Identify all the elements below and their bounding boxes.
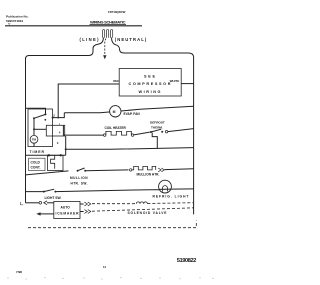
mullion heater connector chevrons — [158, 168, 164, 172]
cold control label box — [29, 158, 45, 170]
wire mullion heater to neutral bus — [165, 168, 194, 171]
svg-text:ICEMAKER: ICEMAKER — [56, 211, 80, 215]
wire lamp to neutral bus — [171, 188, 193, 190]
header rule — [5, 25, 142, 27]
cold control stepped element — [51, 155, 55, 168]
cold control box — [48, 155, 64, 170]
plug prong right — [111, 30, 113, 38]
cold control node right — [60, 154, 62, 156]
icemaker output stub top — [80, 203, 84, 205]
svg-text:LIGHT SW.: LIGHT SW. — [45, 196, 62, 200]
svg-text:THERM.: THERM. — [151, 125, 163, 129]
svg-text:FRT18QRCW: FRT18QRCW — [108, 10, 126, 14]
svg-text:4: 4 — [59, 130, 61, 134]
ground dashed wire — [105, 39, 106, 56]
cold control node left — [48, 154, 50, 156]
svg-text:AUTO: AUTO — [61, 205, 71, 209]
timer switch blade — [34, 114, 46, 118]
wire from left bus to timer — [26, 108, 46, 114]
label MULLION HTR. SW. — [70, 176, 88, 185]
timer switch pivot node — [45, 113, 47, 115]
defrost heater terminal circle left — [104, 134, 106, 136]
junction node red/terminal2 — [57, 117, 59, 119]
svg-text:COLD: COLD — [31, 161, 41, 165]
dashed bottom return wire — [28, 221, 196, 228]
icemaker receptacle chevron — [44, 201, 47, 205]
svg-text:COIL HEATER: COIL HEATER — [105, 126, 127, 130]
svg-text:SOLENOID VALVE: SOLENOID VALVE — [128, 211, 168, 215]
svg-text:WHITE: WHITE — [170, 79, 180, 83]
wire neutral-side from plug to right bus — [112, 38, 194, 58]
svg-text:MULLION: MULLION — [70, 176, 88, 180]
svg-text:RED: RED — [113, 79, 120, 83]
wire light line — [26, 191, 44, 193]
ground arrowhead — [103, 55, 106, 59]
wire white compressor to neutral bus — [181, 83, 193, 85]
dashed wire solenoid to neutral bus — [147, 202, 193, 205]
publication number block — [6, 15, 29, 23]
wire heater to defrost thermostat — [134, 132, 150, 135]
timer motor TM — [30, 135, 38, 143]
icemaker connector chevrons bottom — [84, 210, 90, 214]
svg-text:REFRIG. LIGHT: REFRIG. LIGHT — [153, 195, 189, 199]
light switch node left — [43, 191, 45, 193]
defrost coil heater element — [106, 131, 131, 135]
wire timer internal vertical — [33, 118, 35, 135]
defrost thermostat sensing bracket — [152, 133, 157, 149]
wire red compressor feed — [58, 84, 119, 118]
icemaker output stub bottom — [80, 211, 84, 213]
svg-text:13: 13 — [103, 265, 106, 269]
terminal 2 node — [52, 117, 54, 119]
wire terminal 4 to defrost heater — [63, 125, 103, 135]
wire terminal 2 to fan line — [53, 113, 65, 118]
wire timer internal horizontal — [34, 128, 46, 130]
svg-text:WIRING SCHEMATIC: WIRING SCHEMATIC — [90, 19, 126, 24]
timer box — [28, 109, 53, 147]
wire icemaker feed — [26, 202, 39, 204]
right bus wire — [193, 58, 195, 215]
evap fan motor — [110, 106, 121, 117]
svg-text:(NEUTRAL): (NEUTRAL) — [115, 37, 147, 42]
wire light switch to lamp — [55, 190, 159, 192]
svg-text:TIMER: TIMER — [30, 150, 45, 154]
svg-text:HTR. SW.: HTR. SW. — [71, 182, 88, 186]
svg-text:COMPRESSOR: COMPRESSOR — [129, 82, 171, 86]
publication pointer mark — [8, 23, 10, 25]
svg-text:MULLION HTR.: MULLION HTR. — [137, 173, 160, 177]
wire thermostat to neutral bus — [168, 129, 194, 132]
svg-text:1: 1 — [59, 123, 61, 127]
defrost thermostat terminal circle — [165, 131, 167, 133]
label DEFROST THERM. — [150, 121, 165, 130]
light switch blade — [44, 189, 54, 191]
svg-text:5190822: 5190822 — [177, 258, 197, 264]
svg-text:5995371891: 5995371891 — [6, 19, 23, 23]
svg-text:SEE: SEE — [144, 74, 155, 78]
defrost heater terminal circle right — [131, 134, 133, 136]
light switch node right — [54, 191, 56, 193]
dashed wire to solenoid — [92, 203, 136, 205]
svg-text:WIRING: WIRING — [139, 90, 161, 94]
icemaker connector chevrons top — [84, 202, 90, 206]
mullion switch node right — [84, 170, 86, 172]
svg-text:(LINE): (LINE) — [80, 37, 100, 42]
wire mullion switch to heater — [85, 169, 128, 172]
wire line-side from plug to left bus — [26, 38, 104, 60]
defrost thermostat node left — [150, 131, 152, 133]
left bus wire — [25, 59, 27, 203]
compressor box U1 — [119, 69, 181, 97]
junction node terminal 3 — [65, 148, 67, 150]
node left upper — [33, 117, 35, 119]
mullion switch node left — [77, 170, 79, 172]
wire TM to box bottom — [33, 143, 35, 146]
defrost thermostat blade — [151, 129, 161, 132]
lamp filament — [163, 186, 168, 192]
svg-text:2: 2 — [53, 113, 55, 117]
auto icemaker box — [54, 202, 80, 219]
mullion heater element — [132, 166, 156, 170]
icemaker plug terminal circle — [39, 202, 42, 205]
lamp chord wire — [159, 188, 172, 190]
wire chevron to icemaker box — [47, 202, 54, 204]
title underline — [90, 24, 127, 26]
timer cam switch box — [46, 125, 64, 136]
refrigerator light lamp — [159, 180, 172, 193]
wire terminal 3 to neutral bus — [66, 148, 194, 150]
plug prong middle — [107, 30, 109, 38]
wire icemaker water-fill arrow — [39, 213, 54, 215]
svg-text:EVAP. FAN: EVAP. FAN — [124, 112, 141, 116]
svg-text:M: M — [113, 110, 116, 114]
solenoid coil L1 — [136, 202, 147, 204]
scan speckle row — [7, 277, 213, 280]
wire terminal 3 vertical — [65, 136, 67, 155]
node left lower — [33, 128, 35, 130]
svg-text:TM: TM — [32, 138, 37, 142]
svg-text:7/98: 7/98 — [16, 270, 22, 274]
wire evap fan line — [64, 106, 193, 113]
margin corner mark — [21, 202, 24, 205]
mullion heater terminal circle — [130, 169, 132, 171]
wire mullion heater line — [26, 171, 69, 175]
mullion switch blade — [78, 168, 85, 171]
timer contact node — [44, 119, 46, 121]
defrost thermostat node right — [161, 131, 163, 133]
plug prong left — [103, 30, 105, 38]
svg-text:DEFROST: DEFROST — [150, 121, 165, 125]
icemaker arrowhead — [36, 212, 40, 215]
dashed wire icemaker return — [92, 208, 194, 211]
wire cold control line — [26, 154, 66, 156]
svg-text:CONT.: CONT. — [31, 166, 41, 170]
svg-text:3: 3 — [57, 141, 59, 145]
